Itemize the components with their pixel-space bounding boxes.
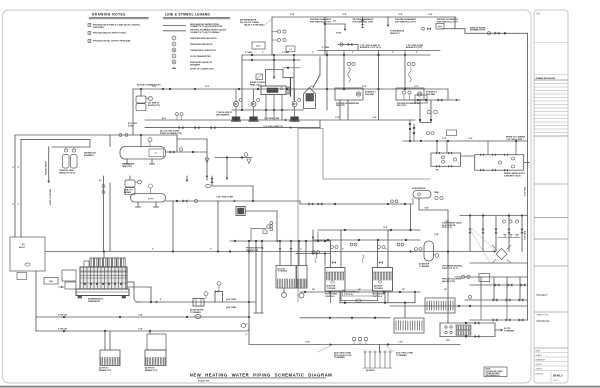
svg-text:GENERATOR: GENERATOR [88,300,101,303]
wire gen feed from cross run [103,252,105,259]
svg-text:ASSEMBLY: ASSEMBLY [84,154,95,157]
svg-text:PUMP (TYP OF 2): PUMP (TYP OF 2) [442,268,458,270]
svg-text:1 1/2": 1 1/2" [414,86,419,88]
svg-text:VALVES (TYP): VALVES (TYP) [246,249,259,252]
T stubs [498,237,520,239]
bottom-left run A [36,316,249,318]
valve row right of C2 [296,253,330,255]
svg-text:PROVIDE ANALOG INPUT TO BAS.: PROVIDE ANALOG INPUT TO BAS. [93,32,127,35]
svg-text:FTL: FTL [436,169,439,171]
svg-text:TANKS (TYP OF 2): TANKS (TYP OF 2) [59,171,75,174]
svg-text:FOR TUBE PULL (TYP): FOR TUBE PULL (TYP) [353,22,374,24]
svg-text:4" HW 100: 4" HW 100 [58,313,67,316]
PRV station [179,126,184,129]
lower right manifolds [470,262,528,264]
convector unit C2 [297,266,308,289]
boiler B-1 block [261,86,286,95]
svg-text:(E): (E) [22,244,25,246]
svg-text:LINE & SYMBOL LEGEND: LINE & SYMBOL LEGEND [165,12,210,16]
svg-text:4": 4" [160,298,162,301]
wire to right riser [465,32,528,34]
radiant loop 1 [431,153,461,166]
svg-text:3 PTS: 3 PTS [148,198,154,200]
chemical feed tanks [64,149,67,152]
svg-text:SK-M1.0: SK-M1.0 [553,375,563,378]
svg-text:TO REMAIN: TO REMAIN [334,356,345,359]
generator unit [44,258,129,303]
MSB box [10,237,45,271]
svg-text:& HWR: & HWR [128,126,134,128]
svg-text:(TYP OF 2): (TYP OF 2) [442,227,452,229]
svg-text:2": 2" [416,52,418,54]
svg-text:PAD (TYP): PAD (TYP) [397,104,406,107]
gauge tower [270,222,273,225]
wire bottom long run [249,344,460,346]
svg-text:CONNECTS TO (E) TO REMAIN: CONNECTS TO (E) TO REMAIN [190,31,220,34]
wire y292 [300,291,420,293]
valve on vent [362,17,364,24]
svg-text:1 1/4": 1 1/4" [442,137,447,140]
svg-text:JOB NO: JOB NO [536,368,543,370]
bypass [214,292,216,303]
svg-text:2": 2" [392,52,394,54]
svg-text:3: 3 [89,41,90,43]
tag box T [236,207,245,216]
svg-text:UNIT HEATERS: UNIT HEATERS [216,113,230,116]
vertical valve drops [469,216,471,252]
wire sep connection [319,57,321,75]
svg-text:VALVE & HOSE END: VALVE & HOSE END [244,24,264,27]
svg-text:4": 4" [13,166,15,169]
wire drop left boiler feed [241,55,243,110]
svg-text:TO REMAIN: TO REMAIN [396,354,407,357]
svg-text:1 1/2": 1 1/2" [258,86,263,88]
svg-text:FLOW TRANSMITTER: FLOW TRANSMITTER [190,55,211,58]
wires below units [339,100,341,120]
svg-text:1 1/4": 1 1/4" [468,137,473,140]
svg-text:2000 MBH: 2000 MBH [365,94,375,96]
svg-text:(E) 4" HWS: (E) 4" HWS [226,298,237,301]
svg-text:SUPPLY & RETURN: SUPPLY & RETURN [50,188,52,205]
wire HWS header main [242,54,430,56]
svg-text:(E) EXPANSION: (E) EXPANSION [412,187,426,190]
wire drop x325 [324,17,326,55]
svg-text:PROVIDE DIGITAL OUTPUT FROM BA: PROVIDE DIGITAL OUTPUT FROM BAS. [93,40,131,43]
boiler unit 1 [335,88,363,100]
svg-text:1 of 1: 1 of 1 [553,380,558,382]
svg-text:2" HWR: 2" HWR [282,52,290,54]
svg-text:1 1/4" HWS: 1 1/4" HWS [524,186,527,196]
gauges [347,62,350,65]
svg-text:2": 2" [300,249,302,251]
wire pump suction header [232,109,304,111]
svg-text:2: 2 [89,33,90,35]
wire drop x277 [276,211,278,241]
svg-text:1 1/4" HWR: 1 1/4" HWR [524,230,527,240]
svg-text:REMAIN (TYP): REMAIN (TYP) [145,369,158,372]
svg-text:2": 2" [152,249,154,251]
svg-text:(E) RISERS: (E) RISERS [366,370,375,372]
wire y306 [390,305,528,307]
boiler unit R [373,268,393,292]
svg-text:1 1/4": 1 1/4" [138,327,143,330]
svg-text:1 1/2" HWS & HWR: 1 1/2" HWS & HWR [264,118,280,120]
svg-text:F: F [174,56,175,58]
svg-text:SCALE: NTS: SCALE: NTS [198,379,210,382]
svg-text:LEVEL OF CONNECTION: LEVEL OF CONNECTION [190,68,214,70]
tag box AS-1 [252,42,265,49]
wire msb drop [35,271,37,331]
wire top HW run [272,16,456,18]
boiler unit L [325,268,345,292]
svg-text:DISCIPLINE: DISCIPLINE [537,321,550,323]
wire left risers [15,134,105,136]
radiant loop 2 [475,155,524,171]
svg-text:1 1/4": 1 1/4" [342,13,347,16]
svg-text:ASSEMBLY (TYP): ASSEMBLY (TYP) [470,29,485,32]
air separator vessel [304,88,316,109]
wire mid riser x327 [326,51,328,111]
bottom connector loop [330,291,332,303]
boiler B-1 pipe loop [265,70,267,87]
hx comb B [394,318,424,333]
left gauge column [103,176,105,252]
svg-text:TANK: TANK [434,191,440,194]
svg-text:2": 2" [342,249,344,251]
arrow drop x388 [387,17,389,25]
wire right header y141 [403,140,528,142]
wire header y120 [145,119,415,121]
svg-text:VALVES (TYP): VALVES (TYP) [442,280,455,283]
svg-text:V-5: V-5 [289,49,292,51]
svg-text:FOR TUBE PULL (TYP): FOR TUBE PULL (TYP) [310,22,331,24]
svg-text:1 1/4": 1 1/4" [434,233,439,236]
svg-text:1 1/4" HWS & HWR: 1 1/4" HWS & HWR [506,138,523,141]
svg-text:DRAWN BY: DRAWN BY [536,358,546,361]
svg-text:& RETURN TO BLDG: & RETURN TO BLDG [504,175,521,177]
unit R feeds [377,240,379,268]
wire right jog [454,17,456,29]
gauges cluster [427,132,430,135]
svg-text:NEW HEATING WATER PIPING SCHEM: NEW HEATING WATER PIPING SCHEMATIC DIAGR… [190,372,333,377]
wire drop x294 [293,55,295,100]
wire riser hws [48,147,50,181]
wire right header y100 [412,99,460,101]
convector F2 [149,331,151,334]
svg-text:PRESSURE GAUGE W/: PRESSURE GAUGE W/ [190,61,212,64]
svg-text:1 1/4" HWS & HWR (TYP): 1 1/4" HWS & HWR (TYP) [263,125,283,128]
svg-text:TANK (TYP): TANK (TYP) [122,165,132,168]
svg-text:(E) 2": (E) 2" [162,118,167,120]
wire down to manifold [410,204,412,230]
arrow on y241 [277,240,279,243]
svg-text:BOILER (TYP): BOILER (TYP) [148,105,160,107]
svg-text:(E) FLUE TO REMAIN (TYP): (E) FLUE TO REMAIN (TYP) [137,84,161,87]
svg-text:1: 1 [89,25,90,27]
svg-text:(E) BOILER: (E) BOILER [327,285,336,287]
svg-text:GA.: GA. [537,13,541,16]
svg-text:1 1/4": 1 1/4" [383,226,388,229]
svg-text:2": 2" [352,52,354,54]
svg-text:1 1/4": 1 1/4" [335,116,340,119]
svg-text:BOILER B-2 (TYP): BOILER B-2 (TYP) [406,47,423,49]
wire hdr y157 [215,157,252,159]
svg-text:(E) BOILER: (E) BOILER [374,285,383,287]
wire drop to air separator tag [271,17,273,55]
generator pipes [126,281,134,283]
wire meter run [136,301,255,303]
svg-text:2000 MBH: 2000 MBH [426,94,436,96]
reheat loop [440,322,495,324]
wire header y127.6 [145,127,320,129]
gauges trio [352,337,355,340]
svg-text:TO REMAIN: TO REMAIN [419,265,430,268]
svg-text:HEATING WATER: HEATING WATER [45,160,48,175]
boiler unit 2 [396,88,424,100]
wire shelf [52,146,90,148]
gauge over drum [148,138,152,142]
feeds to C1 [279,241,281,266]
wire drop arrow into boiler [273,55,275,77]
boiler flue stack 1 [140,89,142,96]
svg-text:FOR TUBE PULL (TYP): FOR TUBE PULL (TYP) [395,22,416,24]
wire sub header y60 [242,59,300,61]
wire top header y89 [133,88,448,90]
wire mid riser x378 [378,51,380,121]
storage tank T-1 [120,147,166,160]
wire drum feed line [105,134,177,136]
wire y302.7 [340,302,415,304]
meter [193,299,204,307]
wire drum outlet [166,151,208,153]
svg-text:NOTE:: NOTE: [486,369,492,371]
connector [461,155,475,157]
wire boiler1 feed [343,51,345,89]
unit L feeds [330,240,332,268]
line and symbol legend [163,12,230,70]
right manifold top [460,215,528,217]
svg-text:TEMPERATURE INDICATOR: TEMPERATURE INDICATOR [190,37,217,40]
svg-text:TO REMAIN: TO REMAIN [190,311,201,314]
svg-text:1 1/4": 1 1/4" [290,13,295,16]
svg-text:1 1/4": 1 1/4" [372,116,377,119]
svg-text:PROJECT: PROJECT [537,294,549,297]
valves on ET line [309,202,314,205]
bottom-left run B [36,330,240,332]
bottom page edge [0,386,600,388]
svg-text:1 1/2": 1 1/2" [362,86,367,88]
svg-text:SNUBBER: SNUBBER [190,64,200,66]
pumps P-1 P-2 P-3 [235,89,237,102]
svg-text:1 1/4": 1 1/4" [398,340,403,343]
wire right riser x527 [527,33,529,320]
svg-text:CONNECTS TO (E) HW SERVICES: CONNECTS TO (E) HW SERVICES [190,26,223,28]
loop feed drops [436,141,438,153]
svg-text:4": 4" [13,203,15,206]
svg-text:DRAWING NOTES: DRAWING NOTES [92,12,126,16]
svg-text:1 1/2": 1 1/2" [205,86,210,88]
wire drum2 outlet [166,200,301,202]
wire y241 run [230,240,330,242]
svg-text:4": 4" [246,333,248,336]
svg-text:GRAND REVISIONS: GRAND REVISIONS [536,77,556,80]
air separator vessel 2 [424,241,434,261]
svg-text:REMAIN (TYP): REMAIN (TYP) [99,369,112,372]
wire manifold y230 [318,229,420,231]
svg-text:1 1/4": 1 1/4" [428,13,433,16]
wire branch to ET [325,23,345,25]
svg-text:P: P [173,44,174,46]
storage tank T-2 [149,184,153,188]
convector unit C1 [276,266,296,289]
svg-text:(E) 4" HWR: (E) 4" HWR [226,306,237,309]
note box [484,367,507,377]
svg-text:1 1/2": 1 1/2" [152,86,157,88]
boundary wall line [297,129,299,303]
svg-text:PAD (TYP): PAD (TYP) [336,104,345,107]
title block [534,10,568,383]
drawing notes block [88,12,149,42]
svg-text:CHK BY: CHK BY [536,364,543,366]
svg-text:2": 2" [262,249,264,251]
gauges TI PI pair [277,30,280,33]
svg-text:REMAIN: REMAIN [124,191,132,194]
svg-text:PRESSURE INDICATOR: PRESSURE INDICATOR [190,43,213,46]
svg-text:BOILER B-1 (TYP OF 2): BOILER B-1 (TYP OF 2) [360,47,381,49]
svg-text:SCALE: SCALE [536,354,543,357]
oval tag [205,184,210,187]
svg-text:DWG NO.: DWG NO. [536,374,545,376]
svg-text:2": 2" [312,52,314,54]
verticals [480,277,482,300]
svg-text:1 1/4" HWS & HWR: 1 1/4" HWS & HWR [216,195,234,198]
svg-text:2" HWS: 2" HWS [245,52,253,54]
svg-text:2": 2" [262,52,264,54]
svg-text:1/2": 1/2" [333,21,337,23]
convector F1 [104,331,106,350]
svg-text:TO REMAIN: TO REMAIN [278,270,288,273]
riser cluster [379,345,381,353]
svg-text:TANK ET-1: TANK ET-1 [390,32,400,35]
svg-text:T: T [174,38,175,40]
svg-text:FROM BAS.: FROM BAS. [93,26,105,29]
svg-text:(TYP OF 4): (TYP OF 4) [344,293,353,296]
svg-text:1 1/2": 1 1/2" [310,86,315,88]
svg-text:TO REMAIN: TO REMAIN [504,329,515,332]
svg-text:4": 4" [18,203,20,206]
wire main cross run [45,251,494,253]
tag top [251,228,266,230]
svg-text:SHEET TITLE: SHEET TITLE [537,315,550,317]
hx comb A [425,298,455,313]
wire drop boiler top [273,55,275,72]
svg-text:TO ET: TO ET [336,33,342,35]
svg-text:1 1/4": 1 1/4" [305,340,310,343]
relief line [338,44,358,46]
component box [436,24,444,30]
wire drop strainer [177,138,207,140]
wire header right drop [447,89,449,100]
svg-text:THERMOWELL INDICATOR: THERMOWELL INDICATOR [190,49,216,52]
wire left header drop [132,89,134,135]
svg-text:4" HW 100: 4" HW 100 [58,327,67,330]
convector rails [255,241,257,313]
riser to bottom run [248,241,250,302]
boiler outlet stubs [265,95,267,121]
wire et riser [418,198,420,210]
manifold row y320 [470,319,528,321]
mixing valve diamond [496,249,507,260]
wire y317.8 [300,317,390,319]
svg-text:2" HWS: 2" HWS [322,47,330,49]
svg-text:2": 2" [385,249,387,251]
svg-text:2": 2" [210,249,212,251]
svg-text:1 1/4": 1 1/4" [138,313,143,316]
expansion tank ET-1 [413,191,431,199]
svg-text:PIPING TO REMAIN (TYP): PIPING TO REMAIN (TYP) [160,132,182,135]
svg-text:AHU-1: AHU-1 [19,246,26,249]
svg-text:DATE: DATE [536,349,541,352]
boiler flue stack 2 [125,180,135,187]
svg-text:1 1/4": 1 1/4" [424,206,429,209]
svg-text:1 1/4": 1 1/4" [398,13,403,16]
wire manifold y240 [313,239,420,241]
svg-text:4": 4" [18,166,20,169]
wire HWS header upper [318,50,440,52]
tag box V-5 [286,46,295,52]
wire boiler2 feed [404,51,406,89]
